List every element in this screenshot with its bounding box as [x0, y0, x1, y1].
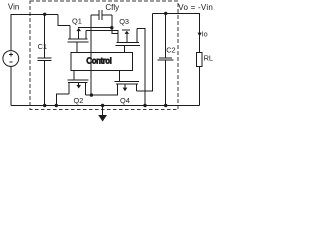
- svg-text:Io: Io: [202, 31, 208, 38]
- wire Cfly left drop upper part: [90, 15, 92, 53]
- wire C2 to ground rail: [165, 60, 167, 105]
- node Q2-ground junction: [55, 104, 58, 107]
- node Vin-C1 junction: [43, 13, 46, 16]
- resistor RL: [197, 52, 202, 66]
- node ground-symbol junction: [101, 104, 104, 107]
- node C1-ground junction: [43, 104, 46, 107]
- transistor Q2: [73, 70, 75, 80]
- wire rail node B top: [78, 27, 112, 29]
- node B junction dot: [110, 26, 113, 29]
- wire Vout top rail: [152, 13, 199, 52]
- wire C2 branch: [165, 13, 167, 57]
- svg-text:Control: Control: [86, 57, 111, 66]
- svg-text:Cfly: Cfly: [105, 3, 119, 12]
- svg-text:Q4: Q4: [120, 96, 130, 105]
- svg-text:RL: RL: [204, 53, 213, 62]
- transistor Q3: [116, 42, 139, 44]
- capacitor C2: [159, 57, 172, 59]
- wire Q2 source to ground: [56, 94, 69, 105]
- wire Q4 to Vout: [136, 13, 152, 91]
- node Vout-C2 junction: [164, 12, 167, 15]
- transistor Q1: [69, 26, 71, 40]
- wire node A bottom rail: [86, 84, 118, 95]
- Io arrow: [198, 33, 202, 37]
- svg-text:Q2: Q2: [74, 96, 84, 105]
- svg-text:Q1: Q1: [72, 17, 82, 26]
- wire Q3 drain to ground drop: [137, 29, 145, 106]
- wire source to ground rail: [10, 66, 12, 105]
- wire Cfly left drop crossing control box: [90, 53, 92, 96]
- wire Vin step down: [58, 14, 70, 25]
- svg-text:Vo = -Vin: Vo = -Vin: [178, 3, 213, 12]
- source minus sign: [9, 61, 12, 63]
- capacitor Cfly: [91, 14, 99, 16]
- wire C1 branch: [44, 14, 46, 58]
- wire ground bottom rail: [11, 105, 200, 107]
- svg-text:Vin: Vin: [8, 3, 19, 12]
- wire rail node A top: [86, 30, 118, 42]
- node A bottom junction dot: [90, 93, 93, 96]
- wire Vin top rail: [11, 14, 58, 50]
- ground: [102, 106, 104, 116]
- node C2-ground junction: [164, 104, 167, 107]
- wire node B jog to Q3: [112, 28, 118, 34]
- svg-text:Q3: Q3: [119, 17, 129, 26]
- wire C1 to ground rail: [44, 61, 46, 106]
- wire RL to ground rail: [199, 67, 201, 106]
- source V1 (Vin): [3, 51, 19, 67]
- control box U1: [71, 53, 132, 71]
- source plus sign: [10, 53, 12, 57]
- svg-text:C2: C2: [166, 46, 175, 55]
- transistor Q4: [119, 70, 121, 81]
- IC dashed box: [30, 1, 178, 109]
- svg-text:C1: C1: [38, 42, 47, 51]
- capacitor C1: [38, 57, 52, 59]
- node Q3-ground junction: [143, 104, 146, 107]
